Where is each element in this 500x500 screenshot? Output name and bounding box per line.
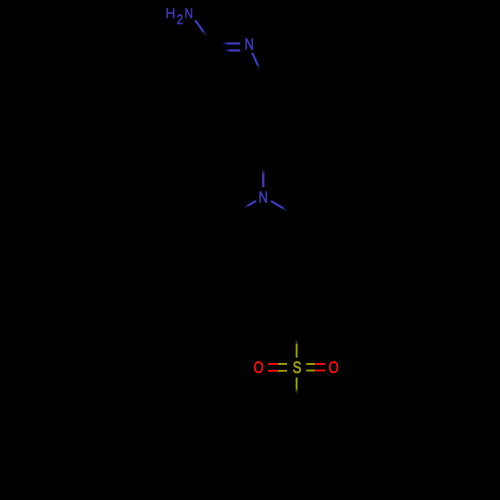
bond S-C below (olive half, vertical)	[296, 378, 298, 394]
bond N1-C6 (blue half)	[252, 53, 259, 70]
svg-text:S: S	[293, 359, 302, 378]
svg-text:O: O	[329, 360, 339, 378]
chain piperidine to sulfonyl (black)	[263, 291, 296, 342]
double bond C2=N1 inner line (blue half)	[224, 49, 240, 51]
bond Npip-C6' down-right (blue half)	[271, 201, 287, 210]
bond CH2-Npip (blue half, vertical)	[262, 169, 264, 188]
amine group H2N label	[165, 5, 193, 28]
svg-text:H: H	[165, 5, 175, 21]
double bond S=O right, lower line	[306, 370, 325, 372]
svg-text:2: 2	[177, 12, 183, 27]
piperidine ring (black)	[223, 207, 304, 291]
bottom ring (black)	[256, 407, 337, 485]
double bond C2=N1 main line (blue half)	[222, 42, 240, 44]
svg-text:N: N	[259, 189, 268, 207]
svg-text:N: N	[245, 36, 254, 54]
bond Npip-C2' down-left (blue half)	[244, 201, 256, 208]
pyridine ring (carbon bonds, black on black)	[180, 43, 269, 124]
svg-text:O: O	[254, 360, 264, 378]
svg-text:N: N	[185, 5, 194, 21]
double bond S=O left, upper line	[268, 363, 287, 365]
double bond S=O left, lower line	[268, 370, 287, 372]
bond C-S above (olive half, vertical)	[296, 340, 298, 358]
bond H2N-C2 (blue half)	[195, 20, 206, 36]
chain pyridine to piperidine (black)	[251, 124, 263, 171]
double bond S=O right, upper line	[306, 363, 325, 365]
